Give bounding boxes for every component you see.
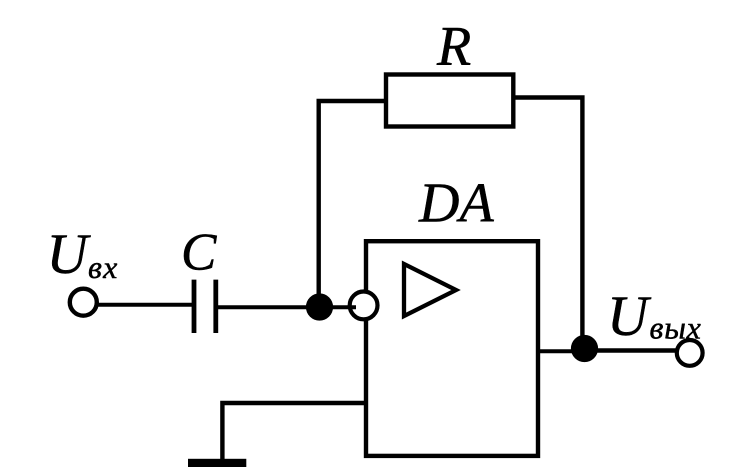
wire: ground branch to non-inverting input <box>222 403 366 461</box>
svg-text:C: C <box>181 223 217 281</box>
svg-text:DA: DA <box>418 172 494 234</box>
wire: op-amp output <box>538 349 584 353</box>
op-amp triangle <box>404 264 456 316</box>
op-amp DA box <box>366 241 538 456</box>
input terminal circle <box>70 289 97 316</box>
capacitor C plate right <box>213 280 218 333</box>
wire: output node to output terminal <box>585 348 677 352</box>
svg-text:R: R <box>436 16 471 78</box>
wire: capacitor to inverting node and into pin circle <box>218 305 356 309</box>
inverting input pin circle <box>350 292 378 320</box>
wire: input terminal to capacitor <box>97 303 193 307</box>
wire: feedback left (node to resistor left) <box>319 101 386 309</box>
node junction dot (inverting input) <box>306 293 333 320</box>
svg-text:вых: вых <box>650 310 702 346</box>
svg-text:вх: вх <box>88 249 119 285</box>
svg-text:U: U <box>607 285 652 348</box>
capacitor C plate left <box>192 280 197 333</box>
resistor R <box>386 75 513 127</box>
wire: feedback right (resistor right to output node) <box>513 98 582 349</box>
svg-text:U: U <box>47 223 92 286</box>
node junction dot (output) <box>571 335 598 362</box>
ground <box>188 459 246 467</box>
output terminal circle <box>677 340 703 366</box>
